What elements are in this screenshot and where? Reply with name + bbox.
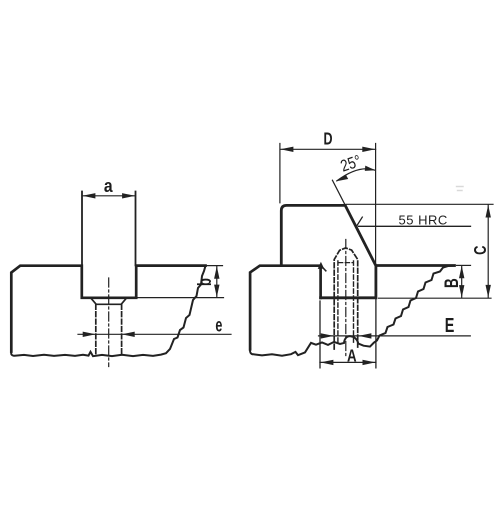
leader 55 HRC <box>357 217 471 226</box>
wedge nut outline <box>281 205 376 297</box>
dim C top extension <box>346 203 493 205</box>
svg-text:b: b <box>195 278 216 286</box>
dim A arrows <box>320 360 375 365</box>
stud hidden outline <box>334 248 358 349</box>
dim a arrows <box>82 193 135 198</box>
left hole chamfer <box>92 299 126 305</box>
angle extension line <box>332 180 345 206</box>
angle arc <box>337 169 376 181</box>
svg-text:D: D <box>323 129 332 149</box>
dim B top extension <box>457 264 471 266</box>
dim D arrows <box>280 147 375 152</box>
stud hidden inner line right <box>353 261 355 344</box>
dim a line <box>82 195 135 197</box>
svg-text:25°: 25° <box>338 152 363 176</box>
dim A line <box>320 361 376 363</box>
svg-text:C: C <box>471 246 491 255</box>
left hole hidden line left <box>95 305 97 354</box>
left hole hidden line right <box>121 305 123 354</box>
stud thread runout hidden line <box>339 262 354 264</box>
svg-text:e: e <box>215 315 222 336</box>
dim b bottom extension <box>137 297 224 299</box>
dim b arrows <box>214 266 219 297</box>
dim b line <box>216 266 218 297</box>
svg-text:E: E <box>445 314 455 337</box>
dim a extension lines <box>82 192 136 266</box>
dim A extension lines <box>320 300 376 368</box>
left block break line (wavy bottom and jagged rise) <box>11 266 205 356</box>
dim b top extension <box>203 265 223 267</box>
svg-text:B: B <box>440 278 462 288</box>
right centre line <box>345 240 347 359</box>
svg-text:55 HRC: 55 HRC <box>399 213 448 228</box>
corner arrow mark <box>318 262 324 269</box>
right table left block outline <box>250 266 321 350</box>
dim D extension lines <box>280 144 376 266</box>
left centre line <box>108 278 110 367</box>
dim e arrows <box>83 332 135 337</box>
dim B line <box>461 266 463 298</box>
angle arc arrows <box>336 175 348 182</box>
dim E arrows <box>321 333 372 338</box>
left block outline <box>11 266 205 352</box>
right table surface right of nut <box>376 264 455 267</box>
stud hidden inner line left <box>337 261 339 344</box>
dim e line <box>78 333 231 335</box>
dim C and B bottom extension <box>379 297 492 299</box>
dim E line <box>319 335 471 337</box>
svg-text:A: A <box>347 347 357 366</box>
dim B arrows <box>459 266 464 298</box>
dim C arrows <box>486 205 491 298</box>
svg-text:a: a <box>104 175 113 197</box>
dim D line <box>280 148 376 150</box>
faint scan mark <box>457 187 464 191</box>
right table break line <box>250 266 455 356</box>
dim C line <box>487 205 489 298</box>
